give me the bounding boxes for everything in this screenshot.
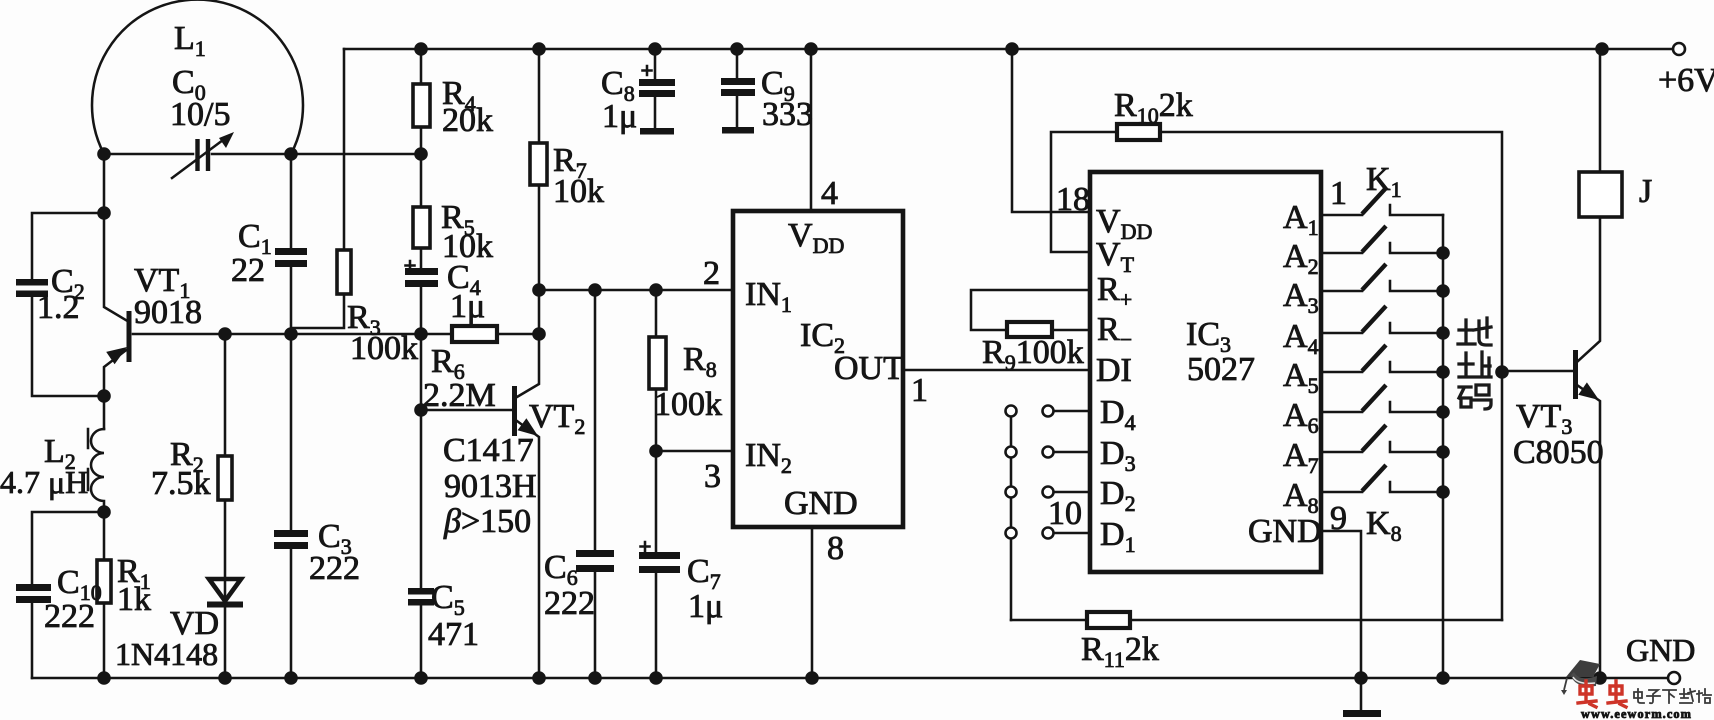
svg-text:5027: 5027 <box>1187 351 1255 388</box>
svg-text:1μ: 1μ <box>602 98 637 135</box>
svg-text:100k: 100k <box>350 330 418 367</box>
svg-text:J: J <box>1639 173 1652 210</box>
svg-text:222: 222 <box>544 585 595 622</box>
svg-text:1μ: 1μ <box>688 588 723 625</box>
svg-text:8: 8 <box>827 530 844 567</box>
svg-text:10/5: 10/5 <box>170 96 230 133</box>
svg-text:18: 18 <box>1056 181 1090 218</box>
svg-text:222: 222 <box>44 598 95 635</box>
svg-text:β>150: β>150 <box>443 503 531 540</box>
svg-text:10k: 10k <box>553 173 604 210</box>
svg-text:471: 471 <box>428 616 479 653</box>
svg-text:20k: 20k <box>442 102 493 139</box>
svg-text:9018: 9018 <box>134 294 202 331</box>
svg-text:10: 10 <box>1048 495 1082 532</box>
svg-text:GND: GND <box>1248 513 1322 550</box>
svg-text:4.7 μH: 4.7 μH <box>0 464 88 500</box>
svg-text:1.2: 1.2 <box>37 289 80 326</box>
svg-text:GND: GND <box>784 485 858 522</box>
svg-text:2: 2 <box>703 255 720 292</box>
svg-text:1k: 1k <box>117 581 151 618</box>
svg-text:2.2M: 2.2M <box>423 377 496 414</box>
svg-text:9: 9 <box>1330 500 1347 537</box>
svg-text:4: 4 <box>821 175 838 212</box>
svg-text:OUT: OUT <box>834 350 904 387</box>
svg-text:C1417: C1417 <box>443 432 534 469</box>
svg-text:22: 22 <box>231 252 265 289</box>
svg-text:www.eeworm.com: www.eeworm.com <box>1581 707 1692 720</box>
svg-text:9013H: 9013H <box>444 468 537 505</box>
svg-text:1: 1 <box>911 372 928 409</box>
svg-text:7.5k: 7.5k <box>151 465 211 502</box>
svg-text:3: 3 <box>704 458 721 495</box>
svg-text:C8050: C8050 <box>1513 434 1604 471</box>
svg-text:1μ: 1μ <box>450 288 485 325</box>
svg-text:222: 222 <box>309 550 360 587</box>
svg-text:+6V: +6V <box>1658 62 1714 99</box>
svg-text:333: 333 <box>762 96 813 133</box>
svg-text:R9100k: R9100k <box>982 334 1084 375</box>
svg-text:GND: GND <box>1626 632 1695 668</box>
svg-text:1: 1 <box>1330 175 1347 212</box>
svg-text:DI: DI <box>1096 352 1132 389</box>
svg-text:100k: 100k <box>654 386 722 423</box>
svg-text:1N4148: 1N4148 <box>115 636 218 672</box>
